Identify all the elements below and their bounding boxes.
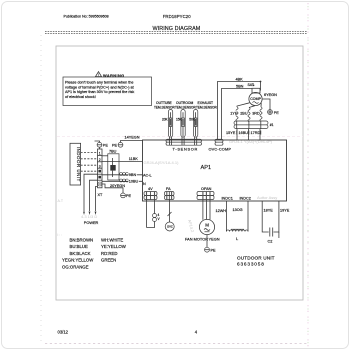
- svg-text:AP1: AP1: [201, 165, 212, 171]
- svg-text:BU:BLUE: BU:BLUE: [70, 244, 89, 249]
- power supply wires with arrows: [83, 174, 98, 225]
- fan motor wires: [203, 200, 210, 220]
- svg-text:COMP: COMP: [250, 97, 261, 101]
- svg-text:11BK: 11BK: [129, 157, 138, 161]
- svg-text:BN:BROWN: BN:BROWN: [70, 237, 94, 242]
- wires XT1 to board: [237, 129, 260, 140]
- connector FA: [165, 187, 175, 200]
- svg-text:M: M: [205, 223, 209, 228]
- svg-text:4.3 1/3 D: 4.3 1/3 D: [81, 214, 97, 219]
- page margin dotted line left: [40, 35, 42, 345]
- legend wire colors: [62, 237, 127, 269]
- sensor RT1 outtube: [154, 101, 175, 139]
- svg-text:#1: #1: [270, 123, 274, 127]
- svg-text:Auttor Assy: Auttor Assy: [257, 195, 277, 200]
- svg-text:V: V: [158, 217, 161, 221]
- svg-text:6YEGN: 6YEGN: [264, 93, 277, 97]
- svg-text:INDOOR UNIT: INDOOR UNIT: [76, 147, 81, 182]
- ground PE at fan motor: [205, 247, 216, 252]
- svg-text:4BK: 4BK: [236, 78, 244, 82]
- svg-text:PE: PE: [126, 194, 132, 198]
- wire 11BK: [102, 157, 143, 162]
- svg-text:OFAN: OFAN: [201, 187, 212, 191]
- svg-text:19YE: 19YE: [280, 209, 290, 213]
- svg-text:A.T: A.T: [58, 199, 64, 203]
- svg-text:PE: PE: [274, 111, 280, 115]
- svg-text:WARNING: WARNING: [103, 73, 125, 78]
- connector XT1 compressor plug: [234, 121, 274, 129]
- svg-text:of electrical shock!: of electrical shock!: [65, 95, 96, 99]
- svg-text:4V: 4V: [148, 187, 153, 191]
- wire 4BK: [218, 78, 261, 140]
- wire 10BU with ferrite ring: [102, 179, 143, 184]
- svg-text:YE:YELLOW: YE:YELLOW: [101, 244, 127, 249]
- wire 6YEGN to PE: [262, 93, 277, 110]
- overload OVC: [165, 200, 174, 232]
- connector 4V: [144, 187, 157, 200]
- svg-text:3: 3: [99, 164, 101, 168]
- ground PE at compressor: [268, 110, 280, 115]
- svg-text:PE: PE: [211, 249, 217, 253]
- svg-text:GREEN: GREEN: [101, 258, 116, 263]
- svg-text:YEGN: YEGN: [209, 237, 220, 242]
- svg-text:INDC2: INDC2: [240, 197, 251, 201]
- ground PE second with wire 14YEGN: [112, 135, 143, 147]
- svg-text:16BU: 16BU: [239, 131, 249, 135]
- wire 20YEGN to PE: [102, 184, 132, 198]
- svg-text:AF14.2: AF14.2: [187, 219, 195, 234]
- svg-text:OVC-COMP: OVC-COMP: [209, 146, 232, 151]
- wire 12WH: [216, 201, 227, 232]
- svg-text:SAT: SAT: [248, 83, 254, 87]
- svg-text:14YEGN: 14YEGN: [125, 135, 140, 139]
- outer diagram frame: [56, 46, 303, 300]
- svg-text:FRD18PYC20: FRD18PYC20: [163, 14, 192, 19]
- svg-text:T-SENSOR: T-SENSOR: [173, 146, 199, 151]
- svg-text:voltage of terminal P(DC+) and: voltage of terminal P(DC+) and N(DC-) at: [65, 85, 135, 89]
- wire 5BN: [222, 85, 253, 140]
- svg-text:PE: PE: [103, 143, 109, 147]
- sensor RT3 exhaust: [189, 101, 217, 139]
- svg-text:AC-L: AC-L: [143, 174, 152, 178]
- svg-text:13OG: 13OG: [233, 208, 243, 212]
- junction dot 4BK corner: [260, 81, 262, 83]
- scan artifact dashed line: [57, 136, 303, 138]
- svg-text:18YE: 18YE: [264, 209, 274, 213]
- terminal block XT: [98, 149, 104, 197]
- svg-text:10BU: 10BU: [129, 180, 139, 184]
- svg-text:4: 4: [195, 330, 198, 335]
- indoor unit box: [70, 143, 81, 185]
- svg-text:12WH: 12WH: [216, 209, 227, 213]
- svg-text:9BN: 9BN: [129, 173, 137, 177]
- svg-text:OG:ORANGE: OG:ORANGE: [62, 264, 89, 269]
- svg-text:2: 2: [99, 158, 101, 162]
- svg-text:WH:WHITE: WH:WHITE: [101, 237, 123, 242]
- svg-text:TEM.SENSOR: TEM.SENSOR: [196, 105, 217, 109]
- svg-text:TEM.SENSOR: TEM.SENSOR: [154, 105, 175, 109]
- svg-text:Please don't touch any termina: Please don't touch any terminal when the: [65, 81, 133, 85]
- svg-text:3RD: 3RD: [252, 112, 260, 116]
- fan motor M: [185, 219, 215, 241]
- wire 19YE: [274, 201, 290, 238]
- svg-text:XT: XT: [98, 193, 104, 197]
- wire 13OG: [233, 201, 249, 232]
- svg-text:Publication No: 5995609608: Publication No: 5995609608: [64, 15, 109, 19]
- connector OFAN: [197, 187, 214, 200]
- T-SENSOR connector: [166, 139, 202, 151]
- svg-text:15YE: 15YE: [226, 131, 236, 135]
- svg-text:OUTDOOR UNIT: OUTDOOR UNIT: [237, 256, 275, 261]
- ground PE near XT top: [95, 141, 109, 149]
- capacitor C2: [268, 228, 273, 244]
- svg-text:POWER: POWER: [84, 220, 99, 225]
- wire 7BU: [102, 150, 117, 156]
- svg-text:AP1 is higher than 30V to prev: AP1 is higher than 30V to prevent the ri…: [65, 90, 134, 94]
- warning triangle icon: [96, 72, 102, 77]
- svg-text:RD:RED: RD:RED: [101, 251, 117, 256]
- svg-text:WIRING DIAGRAM: WIRING DIAGRAM: [153, 26, 201, 32]
- warning box: [63, 77, 152, 106]
- page margin dotted line right: [307, 3, 309, 348]
- AP1 main board: [143, 140, 287, 201]
- 4-way valve coil 4YV: [147, 200, 161, 228]
- svg-text:!: !: [98, 73, 99, 77]
- svg-text:5BN: 5BN: [236, 85, 244, 89]
- svg-text:20K: 20K: [162, 117, 169, 121]
- wire YEGN motor ground: [207, 235, 220, 247]
- svg-text:FAN MOTOR: FAN MOTOR: [185, 237, 208, 242]
- svg-text:2BU: 2BU: [240, 112, 248, 116]
- wire 9BN with ferrite ring: [102, 172, 143, 177]
- svg-text:YEGN:YELLOW: YEGN:YELLOW: [62, 258, 94, 263]
- overload protector SAT: [248, 83, 261, 93]
- svg-text:7BU: 7BU: [109, 150, 117, 154]
- sensor RT2 outroom: [175, 101, 196, 139]
- svg-text:N: N: [143, 182, 146, 186]
- svg-text:1YE: 1YE: [230, 112, 238, 116]
- svg-text:1: 1: [99, 152, 101, 156]
- svg-text:50K: 50K: [189, 117, 196, 121]
- svg-text:i : :: i : :: [58, 233, 63, 237]
- svg-text:PE: PE: [112, 144, 118, 148]
- svg-text:GRJ4-1 Y(A4)+(DHL4P): GRJ4-1 Y(A4)+(DHL4P): [229, 139, 273, 144]
- wire labels 1YE 2BU 3RD: [230, 111, 237, 116]
- wire 18YE: [262, 201, 273, 232]
- svg-text:TEM.SENSOR: TEM.SENSOR: [175, 105, 196, 109]
- svg-text:INDC1: INDC1: [222, 197, 233, 201]
- compressor COMP: [249, 92, 262, 105]
- dashed wires indoor to XT: [81, 153, 98, 172]
- filter box: [108, 154, 119, 180]
- svg-text:FA: FA: [166, 187, 171, 191]
- svg-text:BK:BLACK: BK:BLACK: [70, 251, 91, 256]
- svg-text:17RD: 17RD: [251, 131, 261, 135]
- page margin dashed line bottom: [45, 343, 308, 345]
- svg-text:GRJ4-A(SY/1A.4.1): GRJ4-A(SY/1A.4.1): [144, 160, 180, 165]
- compressor wires U V W: [236, 103, 262, 122]
- title underline double dashed: [45, 31, 307, 33]
- inductor L: [226, 229, 248, 241]
- svg-text:L: L: [236, 236, 239, 241]
- OVC-COMP connector: [209, 139, 232, 151]
- svg-text:OVC: OVC: [167, 225, 173, 229]
- svg-text:15K: 15K: [176, 117, 183, 121]
- svg-text:C2: C2: [268, 240, 273, 244]
- svg-text:20YEGN: 20YEGN: [110, 184, 125, 188]
- svg-text:03/12: 03/12: [58, 330, 69, 335]
- svg-text:63633058: 63633058: [237, 262, 265, 267]
